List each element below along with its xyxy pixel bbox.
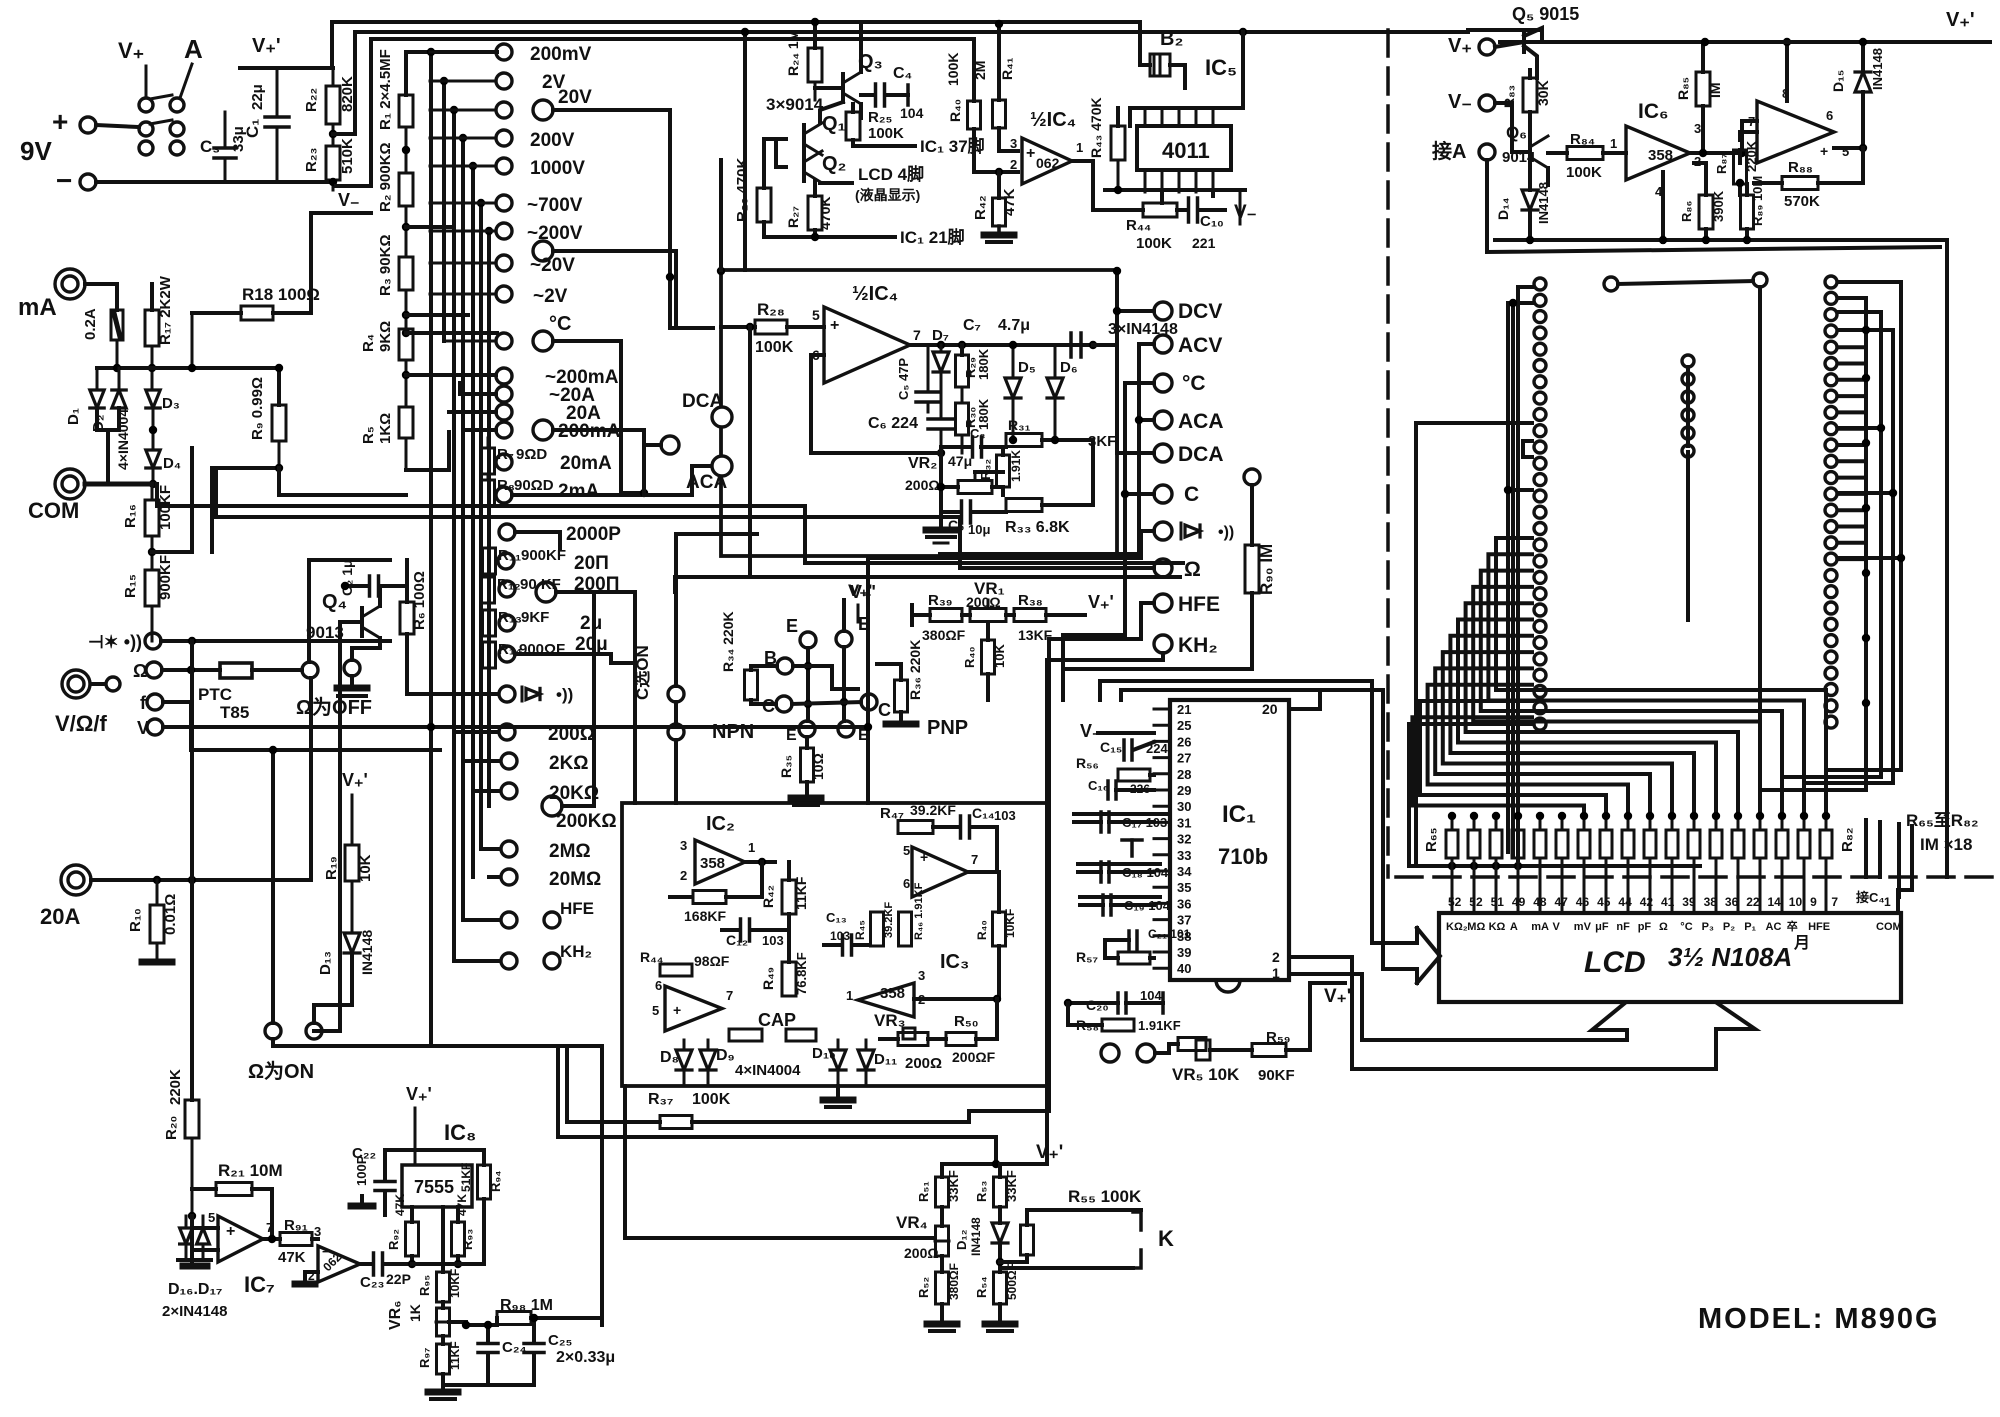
svg-text:1: 1 [1884,895,1891,909]
svg-text:200Ω: 200Ω [905,477,940,493]
label NPN [712,721,754,743]
svg-text:V₋: V₋ [1448,91,1472,113]
svg-text:Ω: Ω [1659,921,1668,933]
resistor R1 [377,49,413,130]
svg-text:R₂₈: R₂₈ [757,300,785,319]
resistor R30 [956,387,992,453]
svg-text:IM: IM [1707,82,1723,98]
resistor R43 [1088,97,1125,194]
svg-text:−: − [56,165,72,196]
resistor R83 [1501,70,1551,140]
svg-text:R₃₇: R₃₇ [648,1091,673,1108]
selector contact 20M [501,869,601,890]
selector contacts HFE [501,899,594,928]
opamp IC7 [208,1210,275,1297]
ground 20A [142,959,172,966]
ground C9 [926,530,956,543]
wire mid vertical 1416 [1416,423,1532,866]
resistor R98 [497,1297,602,1325]
svg-text:20mA: 20mA [560,453,612,474]
PTC T85 [198,663,302,722]
wire ACA link [644,466,712,495]
svg-text:°C: °C [1182,372,1206,395]
wire IC4a out [1072,161,1132,210]
svg-text:R₄₃ 470K: R₄₃ 470K [1088,97,1104,158]
resistor R12 [482,576,561,603]
svg-text:P₁: P₁ [1744,921,1756,933]
svg-text:R₉₀ IM: R₉₀ IM [1257,544,1276,595]
svg-text:R₃₂: R₃₂ [978,459,993,480]
svg-text:D₁₅: D₁₅ [1830,70,1846,92]
capacitor C13 [824,910,870,955]
contact ohm-ON pair [248,1023,322,1083]
selector contact 2000P [499,524,621,548]
svg-text:C₆ 224: C₆ 224 [868,415,918,432]
svg-text:IC₂: IC₂ [706,813,735,835]
chip IC5 4011 [1137,126,1231,170]
svg-text:V₊: V₊ [1448,35,1472,57]
svg-text:39.2KF: 39.2KF [883,902,895,938]
svg-text:20Π: 20Π [574,553,609,574]
resistor R17 2K2W [145,275,174,390]
opamp IC3 [846,951,969,1017]
diode D4 [146,450,181,472]
wire diode bottoms [97,408,157,484]
svg-text:27: 27 [1177,751,1191,766]
svg-text:220K: 220K [167,1069,184,1105]
svg-text:V₊': V₊' [342,770,368,790]
wire mA node [97,364,153,390]
svg-text:6: 6 [655,978,662,993]
svg-text:C₁₆: C₁₆ [1088,778,1109,793]
resistor R52 [916,1263,961,1322]
resistor R40 [945,39,1018,176]
svg-text:100K: 100K [945,53,961,86]
resistor R91 [278,1217,321,1266]
svg-text:2×0.33μ: 2×0.33μ [556,1349,615,1366]
socket C pair [762,694,891,720]
terminal V [137,718,868,738]
svg-text:nF: nF [1616,921,1630,933]
svg-text:51KF: 51KF [459,1163,473,1192]
wire IC6a out up [1690,106,1742,157]
svg-text:100K: 100K [1566,164,1602,181]
terminal diode-buzzer [88,632,390,652]
resistor R39 [922,592,970,643]
selector contact diode-buzz [497,686,515,702]
svg-text:T85: T85 [220,703,249,722]
wire IC4b feedback [811,355,929,453]
svg-text:34: 34 [1177,864,1192,879]
svg-text:2000P: 2000P [566,524,621,545]
wire R20 column [190,641,194,880]
svg-text:76.8KF: 76.8KF [794,952,809,995]
chip IC1 pins left [1154,702,1192,976]
svg-text:3: 3 [1694,121,1701,136]
capacitor C6 [868,412,954,457]
node Vp lower [998,1142,1063,1164]
resistor R3 [377,235,413,296]
dashed separator vertical [1386,30,1390,877]
wire top bus1 [332,20,997,24]
svg-text:C: C [878,700,891,720]
svg-text:358: 358 [1648,147,1673,164]
svg-text:pF: pF [1638,921,1652,933]
svg-text:4.7μ: 4.7μ [998,317,1030,334]
svg-text:V₊': V₊' [1036,1142,1063,1163]
svg-text:3: 3 [918,968,925,983]
wire 4011 bottom rail [1105,39,1245,190]
svg-text:Ω为OFF: Ω为OFF [296,696,372,719]
svg-text:A: A [1510,921,1518,933]
svg-text:V₋: V₋ [338,190,360,210]
resistor R44b [1126,190,1186,252]
ground R42 [984,235,1014,242]
svg-text:R₉₅: R₉₅ [417,1275,432,1296]
resistor R48a [962,622,1007,700]
capacitor C12 [722,919,789,948]
ground D10 [823,1086,853,1107]
diode D14 [1495,166,1551,242]
svg-text:IC₃: IC₃ [940,951,969,973]
wire long 577 [675,577,1180,592]
svg-text:•)): •)) [556,685,573,704]
selector contact C deg [444,313,644,493]
svg-text:IC₅: IC₅ [1205,55,1237,80]
wire 20A rail [91,876,311,884]
resistor R46 [899,882,926,946]
svg-text:1.91KF: 1.91KF [1138,1018,1181,1033]
svg-text:C₇: C₇ [963,317,981,334]
svg-text:47K: 47K [393,1194,407,1216]
svg-text:5: 5 [903,843,910,858]
svg-text:D₁: D₁ [65,408,82,425]
wire R22-R23 junction [329,32,355,146]
capacitor C7 [963,317,1097,357]
wire right column fanout [1760,282,1905,816]
socket E bottom pair [786,721,869,744]
svg-text:7: 7 [913,327,921,343]
wire route D [864,558,872,803]
node A label [180,34,203,98]
svg-text:LCD: LCD [1584,946,1646,979]
svg-text:2μ: 2μ [580,613,602,634]
wire R9 column [153,364,283,405]
svg-text:Q₁: Q₁ [822,113,846,135]
capacitor C17 [1074,812,1167,832]
svg-text:R₄₂: R₄₂ [972,195,989,220]
svg-text:R₄₀: R₄₀ [947,99,963,122]
capacitor C23 [360,1253,443,1291]
resistor R42b [760,862,809,940]
wire bus v1 [427,48,435,1046]
svg-text:R18 100Ω: R18 100Ω [242,285,320,304]
opamp IC2b [903,843,978,897]
IC5 label [1205,55,1237,80]
svg-text:1: 1 [1076,140,1083,155]
svg-text:R₄₉: R₄₉ [760,967,776,990]
diode D15 [1830,42,1885,148]
svg-text:R₅: R₅ [360,426,377,444]
svg-text:接C₄: 接C₄ [1856,890,1885,905]
svg-text:52: 52 [1448,895,1462,909]
svg-text:R₅₁: R₅₁ [916,1181,931,1202]
display LCD com [1876,895,1902,933]
wire chain to IC1 [1063,669,1121,700]
selector big contact ~200V [533,241,713,328]
svg-text:C₁₅: C₁₅ [1100,739,1122,755]
svg-text:R₂₃: R₂₃ [303,148,320,172]
contact K upper [1027,1210,1141,1230]
svg-text:PNP: PNP [927,717,968,739]
svg-text:接A: 接A [1432,140,1466,163]
label R55 [1068,1187,1142,1206]
connector mini column [1682,355,1694,620]
pot VR3 [874,1011,946,1072]
svg-text:R₈₆: R₈₆ [1679,201,1694,222]
resistor R90 [1063,469,1276,669]
svg-text:200Ω: 200Ω [905,1055,942,1072]
transistor Q3 [766,22,883,118]
svg-text:DCA: DCA [682,391,723,412]
svg-text:KΩ₂: KΩ₂ [1446,921,1468,933]
svg-text:R₄₇: R₄₇ [880,805,904,822]
pot VR4 [896,1213,949,1272]
wire IC8 bottom node [412,1207,484,1264]
svg-text:2KΩ: 2KΩ [549,753,589,774]
svg-text:D₁₁: D₁₁ [874,1051,897,1068]
svg-text:Q₆: Q₆ [1506,123,1527,142]
svg-text:K: K [1158,1226,1174,1251]
svg-text:R₃₄ 220K: R₃₄ 220K [720,611,736,672]
svg-text:C₄: C₄ [893,65,912,82]
svg-text:D₁₃: D₁₃ [317,951,334,975]
svg-text:•)): •)) [1218,524,1234,541]
output diode-buzz glyph [1181,523,1234,541]
svg-text:C₁₂: C₁₂ [726,932,748,948]
wire bus 1137 [558,1137,996,1164]
svg-text:100K: 100K [692,1091,731,1108]
svg-text:HFE: HFE [1178,593,1220,616]
svg-text:PTC: PTC [198,685,232,704]
capacitor C21 [1105,927,1191,949]
capacitor C8 [941,426,1006,469]
svg-text:R₃ 90KΩ: R₃ 90KΩ [377,235,394,296]
label CAP [758,1010,796,1030]
svg-text:7: 7 [726,988,733,1003]
svg-text:26: 26 [1177,734,1191,749]
capacitor C5 [896,345,940,412]
opamp IC4b [812,283,921,383]
resistor R95 [417,1264,462,1302]
resistor R2 [377,142,413,212]
svg-text:V₊': V₊' [1324,986,1351,1007]
resistor R92 [386,1194,419,1269]
svg-text:510K: 510K [339,138,356,174]
svg-text:20KΩ: 20KΩ [549,783,599,804]
resistor R44c [640,949,730,976]
contact K lower [1000,1226,1174,1268]
resistor R37 [567,1091,1049,1129]
power switch contacts [139,95,184,155]
svg-text:Q₄: Q₄ [322,591,347,613]
svg-text:20MΩ: 20MΩ [549,869,601,890]
svg-text:7: 7 [1831,895,1838,909]
resistor R7 [482,438,613,474]
svg-text:+: + [830,317,839,334]
arrow into LCD left [1372,928,1440,983]
chip IC1 pin labels right [1262,701,1280,981]
svg-text:+: + [1820,143,1828,159]
svg-text:IN4148: IN4148 [1870,48,1885,90]
wire R2-R3 [402,206,410,257]
svg-text:D₁₀: D₁₀ [812,1045,836,1062]
svg-text:9KΩ: 9KΩ [377,321,394,352]
resistor R9 [212,377,406,552]
svg-text:P₂: P₂ [1723,921,1735,933]
svg-text:VR₃: VR₃ [874,1011,905,1030]
svg-text:R₁₉: R₁₉ [323,856,340,880]
resistor R89 [1741,176,1766,242]
selector contacts mA-ranges [496,367,621,442]
svg-text:+: + [920,849,928,865]
transistor Q1 [804,102,846,155]
svg-text:R₂₂: R₂₂ [303,88,320,112]
resistor R15 [122,555,174,606]
svg-text:R₁₀: R₁₀ [127,908,144,932]
terminal mA [18,269,85,321]
display LCD segment labels [1446,919,1830,933]
svg-text:R₈₈: R₈₈ [1788,159,1813,176]
resistor R26 [734,139,786,237]
svg-text:R₄₂: R₄₂ [760,885,776,908]
svg-text:Q₅ 9015: Q₅ 9015 [1512,4,1579,24]
wire long 506 [157,506,1183,563]
svg-text:月: 月 [1793,934,1810,952]
svg-text:Ω: Ω [1184,558,1201,581]
svg-text:47K: 47K [278,1249,306,1266]
svg-text:D₄: D₄ [163,455,181,472]
resistor R14 [483,634,608,668]
capacitor C4 [861,65,924,121]
wire R1-R2 [402,127,410,173]
svg-text:A: A [184,34,203,64]
svg-text:11KF: 11KF [793,876,809,910]
ground R35 [791,798,821,805]
svg-text:V₊': V₊' [1946,9,1975,31]
opamp IC7b [308,1244,360,1283]
opamp IC2c [652,978,733,1031]
resistor R56 [1076,755,1154,781]
wire D4 to COM [149,470,157,488]
resistor array R65-R82 [1446,812,1832,913]
wire IC6b plus [1818,144,1867,183]
svg-text:V₊: V₊ [118,38,144,63]
wire R20 down [190,880,194,1100]
capacitor C15 [1100,739,1168,760]
svg-text:0.01Ω: 0.01Ω [162,894,179,935]
svg-text:100K: 100K [755,339,794,356]
resistor R4 [360,321,413,360]
svg-text:104: 104 [1140,988,1162,1003]
resistor R36 [886,640,923,724]
capacitor C16 [1088,778,1154,799]
wire top bus2 [355,28,1468,36]
svg-text:062: 062 [1036,155,1060,171]
svg-text:5: 5 [208,1210,215,1225]
svg-text:221: 221 [1192,235,1216,251]
resistor R23 [303,138,356,180]
svg-text:+: + [1026,145,1035,162]
resistor R31 [1006,417,1116,450]
label 4x1N4004 [735,1062,801,1079]
wire battery minus rail [96,180,333,184]
display LCD box [1439,913,1901,1002]
svg-text:180K: 180K [976,348,991,380]
wire R15 to buzzer node [151,606,154,641]
svg-text:D₆: D₆ [1060,359,1078,376]
socket E top pair [786,614,870,648]
svg-text:R₉₄: R₉₄ [488,1171,503,1192]
svg-text:37: 37 [1177,913,1191,928]
resistor R22 [303,68,356,124]
svg-text:33KF: 33KF [946,1170,961,1202]
contact pair VR5 [1101,1044,1155,1062]
svg-text:R₄₀: R₄₀ [975,920,989,940]
svg-text:900KF: 900KF [157,555,174,600]
label R65-R82 note [1906,811,1979,854]
display LCD title [1584,934,1810,979]
wire 200mA feed [406,375,496,430]
svg-text:R₅₃: R₅₃ [974,1181,989,1202]
wire PTC to 20A node [309,678,313,880]
svg-text:32: 32 [1177,832,1191,847]
svg-text:IC₇: IC₇ [244,1272,275,1297]
resistor R86 [1679,163,1726,242]
wire R3-R4 [402,290,410,337]
resistor R27 [785,181,833,237]
svg-text:~2V: ~2V [533,286,568,307]
svg-text:COM: COM [28,498,79,523]
wire R51 top [942,1160,1000,1168]
svg-text:R₅₅ 100K: R₅₅ 100K [1068,1187,1142,1206]
svg-text:20A: 20A [40,904,80,929]
terminal V+ right [1448,35,1495,57]
svg-text:ACA: ACA [1178,410,1224,433]
svg-text:3: 3 [680,838,687,853]
ground C22 [351,1196,373,1206]
svg-text:+: + [226,1223,235,1240]
wire top bus V+ vertical [330,22,334,68]
wire left column taps [1504,287,1532,860]
wire KHz chain down [1047,635,1063,1164]
svg-text:100K: 100K [1136,235,1172,252]
wire IC7b out [360,1262,371,1266]
wire KHz lead [1047,653,1163,660]
diode D11 [858,1040,897,1086]
opamp IC4a [1010,109,1083,184]
wire A to bottom [0,0,1,1]
svg-text:Ω: Ω [133,661,147,681]
svg-text:470K: 470K [817,197,833,230]
svg-text:C₂₁ 101: C₂₁ 101 [1148,927,1191,941]
wire battery plus to switch [96,125,139,127]
svg-text:9KF: 9KF [521,609,549,626]
chip IC1 710b [1170,700,1289,980]
svg-text:R₄₁: R₄₁ [999,57,1015,80]
terminal A right [1432,140,1495,163]
svg-text:VR₅ 10K: VR₅ 10K [1172,1065,1240,1084]
